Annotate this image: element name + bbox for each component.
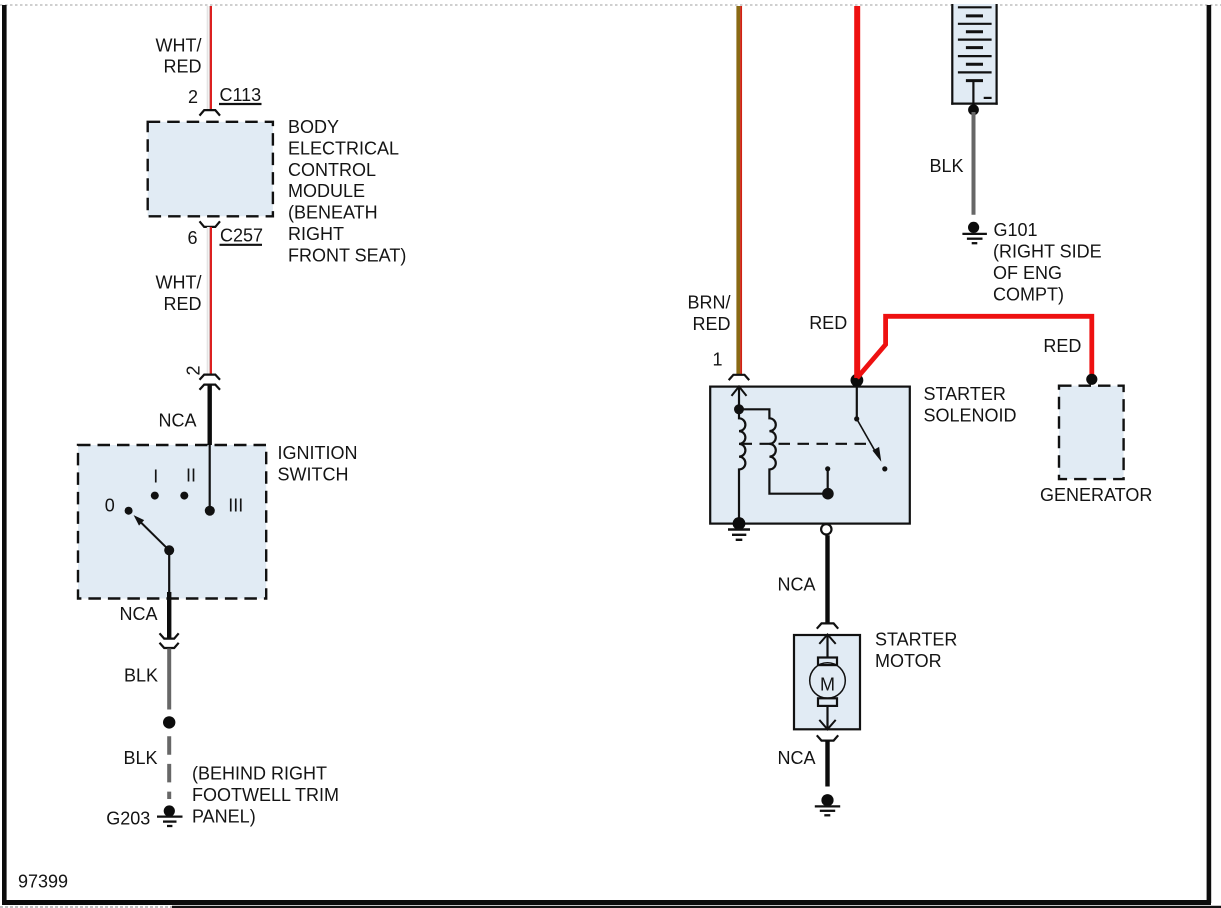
svg-text:I: I	[153, 467, 158, 487]
svg-text:RED: RED	[692, 314, 730, 334]
label (RIGHT SIDE OF ENG COMPT)	[993, 242, 1102, 305]
svg-text:BRN/: BRN/	[687, 293, 730, 313]
svg-text:BLK: BLK	[123, 748, 157, 768]
label C113	[219, 85, 262, 105]
ground G203	[157, 805, 183, 826]
coil L1 (pull-in winding)	[739, 409, 745, 523]
svg-text:G203: G203	[106, 809, 150, 829]
solenoid entry arrow	[732, 386, 747, 409]
svg-text:STARTER: STARTER	[924, 384, 1006, 404]
node: generator terminal	[1086, 374, 1097, 385]
label (BEHIND RIGHT FOOTWELL TRIM PANEL)	[192, 764, 339, 827]
svg-text:BODY: BODY	[288, 117, 339, 137]
svg-text:FOOTWELL TRIM: FOOTWELL TRIM	[192, 785, 339, 805]
label WHT/RED lower	[156, 273, 202, 314]
label C257	[220, 225, 264, 245]
svg-text:0: 0	[105, 496, 115, 516]
svg-text:2: 2	[184, 365, 204, 375]
svg-text:WHT/: WHT/	[156, 273, 202, 293]
label STARTER MOTOR	[875, 630, 957, 671]
svg-text:STARTER: STARTER	[875, 630, 957, 650]
label STARTER SOLENOID	[924, 384, 1017, 425]
connector (solenoid terminal 1)	[729, 375, 750, 380]
ground (starter motor)	[815, 794, 840, 815]
wire to contact III	[209, 445, 211, 511]
switch arm	[134, 515, 170, 550]
label IGNITION SWITCH	[278, 443, 358, 484]
svg-text:ELECTRICAL: ELECTRICAL	[288, 138, 399, 158]
wire WHT/RED lower segment	[208, 227, 211, 374]
svg-text:SWITCH: SWITCH	[278, 465, 349, 485]
svg-text:FRONT SEAT): FRONT SEAT)	[288, 245, 406, 265]
wire BRN/RED	[738, 6, 741, 375]
node: battery feed on solenoid	[851, 374, 864, 387]
solenoid internal ground	[728, 517, 750, 540]
wire pivot to box bottom	[168, 550, 170, 638]
contact III	[205, 506, 215, 516]
contact II	[180, 492, 188, 500]
battery G1	[951, 4, 998, 105]
contact node upper	[825, 466, 830, 494]
svg-text:NCA: NCA	[119, 604, 157, 624]
wire NCA solenoid to motor	[825, 535, 829, 623]
wire NCA motor to ground	[825, 741, 829, 787]
node: battery negative post	[968, 104, 979, 115]
generator box	[1059, 386, 1124, 479]
wire BLK solid	[167, 649, 171, 710]
svg-text:(BENEATH: (BENEATH	[288, 203, 378, 223]
switch contact feed	[854, 386, 859, 422]
svg-text:97399: 97399	[18, 871, 68, 891]
svg-text:6: 6	[187, 228, 197, 248]
wire BLK battery	[972, 112, 976, 215]
svg-text:1: 1	[712, 349, 722, 369]
svg-text:SOLENOID: SOLENOID	[924, 405, 1017, 425]
svg-text:M: M	[820, 675, 835, 695]
ground G101	[962, 222, 987, 243]
connector halves (ignition to BLK)	[160, 633, 179, 648]
svg-text:NCA: NCA	[158, 410, 196, 430]
svg-text:(BEHIND RIGHT: (BEHIND RIGHT	[192, 764, 327, 784]
svg-text:NCA: NCA	[777, 574, 815, 594]
svg-text:NCA: NCA	[777, 748, 815, 768]
svg-text:C113: C113	[220, 85, 262, 105]
wire BLK dashed	[167, 736, 171, 799]
starter solenoid box	[710, 387, 910, 524]
svg-text:CONTROL: CONTROL	[288, 160, 376, 180]
wire RED main vertical	[854, 6, 860, 378]
motor M1 internals	[810, 635, 846, 730]
label BRN/RED	[687, 293, 730, 334]
svg-text:MODULE: MODULE	[288, 181, 365, 201]
svg-text:RED: RED	[163, 294, 201, 314]
mechanical link (dashed)	[741, 443, 868, 445]
solenoid switch arm	[857, 419, 882, 462]
svg-text:2: 2	[188, 87, 198, 107]
svg-text:G101: G101	[994, 220, 1038, 240]
starter motor box	[794, 635, 860, 729]
svg-text:BLK: BLK	[929, 156, 963, 176]
svg-text:IGNITION: IGNITION	[278, 443, 358, 463]
svg-text:(RIGHT SIDE: (RIGHT SIDE	[993, 242, 1102, 262]
connector (motor terminal)	[817, 623, 838, 628]
svg-text:BLK: BLK	[124, 666, 158, 686]
wire NCA (to ignition switch)	[207, 385, 211, 447]
label WHT/RED upper	[156, 35, 202, 76]
connector C113	[200, 110, 221, 116]
node: coil feed junction	[734, 404, 744, 414]
svg-text:WHT/: WHT/	[156, 35, 202, 55]
svg-text:II: II	[186, 465, 196, 485]
node: output junction	[822, 488, 834, 500]
svg-text:COMPT): COMPT)	[993, 284, 1064, 304]
svg-text:C257: C257	[220, 225, 263, 245]
solenoid output terminal (open circle)	[821, 524, 831, 534]
contact 0	[125, 507, 133, 515]
contact I	[151, 492, 159, 500]
svg-text:III: III	[228, 496, 243, 516]
wire WHT/RED upper segment	[208, 6, 211, 110]
svg-text:OF ENG: OF ENG	[993, 263, 1062, 283]
inline connector halves	[200, 375, 221, 390]
switch arm pivot	[164, 545, 174, 555]
label BODY ELECTRICAL CONTROL MODULE	[288, 117, 406, 265]
ignition switch box	[78, 445, 266, 599]
svg-text:MOTOR: MOTOR	[875, 651, 942, 671]
svg-text:RED: RED	[1043, 336, 1081, 356]
switch contact lower	[882, 466, 887, 471]
svg-text:PANEL): PANEL)	[192, 806, 256, 826]
svg-text:GENERATOR: GENERATOR	[1040, 485, 1152, 505]
junction splice	[163, 716, 175, 728]
wire RED branch to generator	[857, 316, 1092, 378]
module BECM box	[148, 122, 273, 217]
svg-text:RED: RED	[163, 57, 201, 77]
connector (motor bottom)	[817, 735, 838, 740]
svg-text:RIGHT: RIGHT	[288, 224, 344, 244]
svg-text:RED: RED	[809, 313, 847, 333]
coil L2 (hold-in winding)	[739, 409, 828, 493]
connector C257	[200, 221, 221, 227]
